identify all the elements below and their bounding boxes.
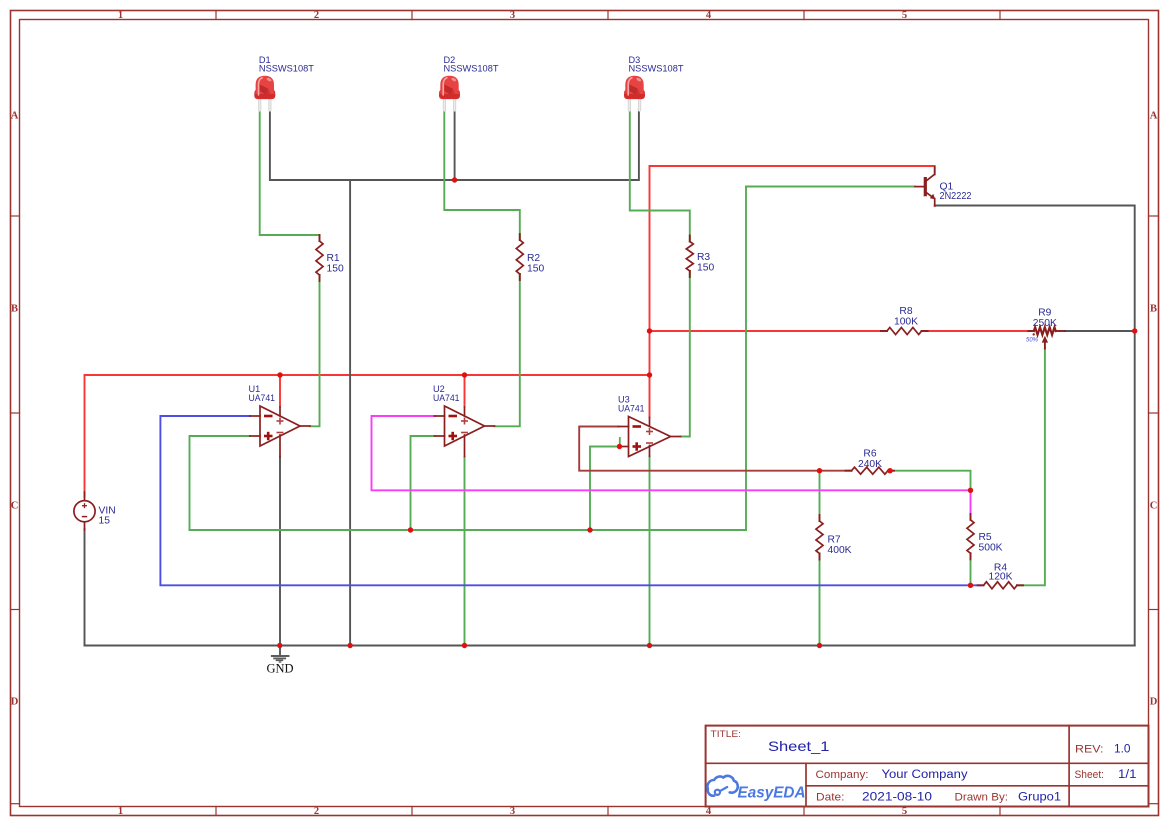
junction ground bus U3 [647,643,652,648]
wire green stub at U3 noninverting pin [619,438,621,447]
junction ground bus R7 [817,643,822,648]
svg-text:GND: GND [266,662,293,676]
resistor R8 [881,328,928,335]
junction ground bus U2 [462,643,467,648]
svg-text:150: 150 [527,264,544,275]
svg-text:5: 5 [902,10,907,21]
junction R8 bus left [647,328,652,333]
junction R7 top [817,468,822,473]
svg-text:Your Company: Your Company [882,769,968,781]
svg-text:REV:: REV: [1075,744,1104,756]
svg-text:R3: R3 [697,252,710,263]
svg-text:100K: 100K [894,317,918,328]
wire red to Q1 collector [650,166,935,173]
svg-text:Sheet:: Sheet: [1075,769,1105,781]
wire grey Q1 emitter net [935,206,1135,646]
wire red R8 bus left [650,330,887,332]
wire red vertical to Q1 [649,166,651,417]
wire red V+ from VIN up [84,375,86,497]
svg-text:EasyEDA: EasyEDA [738,785,806,802]
svg-text:TITLE:: TITLE: [711,729,742,739]
svg-text:250K: 250K [1033,318,1057,329]
wire grey D1 cathode to top bus [270,109,639,180]
wire blue U1 inverting input net [160,416,982,585]
junction magenta R5 [968,488,973,493]
svg-text:B: B [11,304,18,315]
svg-text:1: 1 [118,806,123,817]
wire green R5 bottom [970,553,972,585]
svg-text:2: 2 [314,806,319,817]
wire grey R9 right [1065,330,1135,332]
wire green U3 V- to ground bus [649,456,651,645]
wire green D3 anode to R3 [630,109,690,242]
resistor R4 [978,582,1023,589]
LED D3 [624,76,645,112]
wire grey ground bus bottom [85,645,1135,647]
wire red V+ bus horizontal [85,374,650,376]
svg-text:R8: R8 [899,306,912,317]
svg-text:A: A [1150,111,1158,122]
voltage source VIN [74,492,95,530]
svg-text:4: 4 [706,10,712,21]
wire green R9 wiper to R4 [1017,349,1045,586]
resistor R2 [516,234,523,280]
potentiometer R9 [1028,327,1064,348]
svg-text:Date:: Date: [816,791,845,803]
wire green D1 anode to R1 [260,109,320,241]
svg-text:Company:: Company: [816,769,869,781]
junction V+ bus U1 [277,372,282,377]
svg-text:R1: R1 [327,253,340,264]
svg-text:2021-08-10: 2021-08-10 [862,791,932,803]
resistor R6 [846,467,894,474]
junction top bus D2 [452,177,457,182]
resistor R1 [316,235,323,281]
svg-text:NSSWS108T: NSSWS108T [259,64,314,74]
svg-text:NSSWS108T: NSSWS108T [629,64,684,74]
svg-text:150: 150 [327,264,344,275]
junction U3 noninverting pin [617,444,622,449]
junction green bus U3 input [587,527,592,532]
op-amp U3 [619,417,681,457]
wire green R1 to U1 output [310,275,320,426]
svg-text:A: A [11,111,19,122]
wire grey VIN minus to ground bus [84,529,86,646]
wire green D2 anode to R2 [444,109,520,240]
svg-text:D: D [1150,697,1158,708]
LED D2 [439,76,460,112]
junction ground bus grey [347,643,352,648]
junction R6 right [887,468,892,473]
svg-text:240K: 240K [858,459,882,470]
svg-text:B: B [1150,304,1157,315]
wire green node bus horizontal [190,529,747,531]
wire green U1 noninverting input [190,436,251,530]
svg-text:Sheet_1: Sheet_1 [768,738,830,754]
junction blue R4 R5 [968,583,973,588]
LED D1 [254,76,275,112]
junction R9 right [1132,328,1137,333]
svg-text:Grupo1: Grupo1 [1018,791,1061,803]
resistor R5 [967,514,974,559]
EasyEDA logo icon [707,776,737,796]
wire green U2 V- to ground bus [464,457,466,646]
transistor Q1 [915,167,935,206]
svg-text:2: 2 [314,10,319,21]
svg-text:1: 1 [118,10,123,21]
svg-text:UA741: UA741 [433,393,460,403]
junction V+ bus corner [647,372,652,377]
svg-text:C: C [11,501,19,512]
svg-text:NSSWS108T: NSSWS108T [444,64,499,74]
wire green Q1 base horizontal [746,186,915,188]
svg-text:1.0: 1.0 [1114,744,1131,756]
svg-text:3: 3 [510,806,515,817]
op-amp U1 [250,406,310,457]
wire green R7 bottom to ground bus [819,554,821,646]
resistor R3 [686,236,693,278]
svg-text:R2: R2 [527,253,540,264]
wire grey top bus to bottom bus [349,180,351,646]
wire green R3 to U3 output [681,271,690,437]
svg-text:R7: R7 [828,535,841,546]
wire green U2 noninverting input [411,436,435,530]
wire green R6 to R5 [890,471,971,491]
svg-text:3: 3 [510,10,515,21]
svg-text:2N2222: 2N2222 [940,191,972,202]
svg-text:1/1: 1/1 [1118,769,1137,781]
wire green R7 top [819,471,821,521]
svg-text:120K: 120K [988,572,1012,583]
svg-text:Drawn By:: Drawn By: [955,791,1009,803]
svg-text:R5: R5 [979,532,992,543]
wire grey D2 cathode [454,109,456,180]
ground GND symbol [271,646,290,663]
wire green Q1 base vertical [745,187,747,531]
wire brown U3 inverting input net [579,427,851,471]
svg-text:UA741: UA741 [618,404,645,414]
svg-text:150: 150 [697,263,714,274]
junction V+ bus U2 [462,372,467,377]
svg-text:UA741: UA741 [249,393,276,403]
op-amp U2 [435,406,495,457]
svg-text:D: D [11,697,19,708]
wire green R2 to U2 output [495,274,520,426]
wire red U1 power feed [279,375,281,407]
junction green bus U2 input [408,527,413,532]
svg-text:R6: R6 [863,449,876,460]
svg-text:15: 15 [99,516,111,527]
wire grey U1 V- to ground bus [279,457,281,646]
svg-text:C: C [1150,501,1158,512]
wire green U3 noninverting input [590,447,619,531]
svg-text:400K: 400K [828,545,852,556]
wire magenta U2 inverting input net [372,416,971,520]
junction ground bus GND [277,643,282,648]
wire red R8 to R9 [922,330,1033,332]
title block [706,726,1149,807]
svg-text:500K: 500K [979,543,1003,554]
wire red U2 power feed [464,375,466,407]
resistor R7 [816,515,823,560]
svg-text:50%: 50% [1026,338,1039,344]
